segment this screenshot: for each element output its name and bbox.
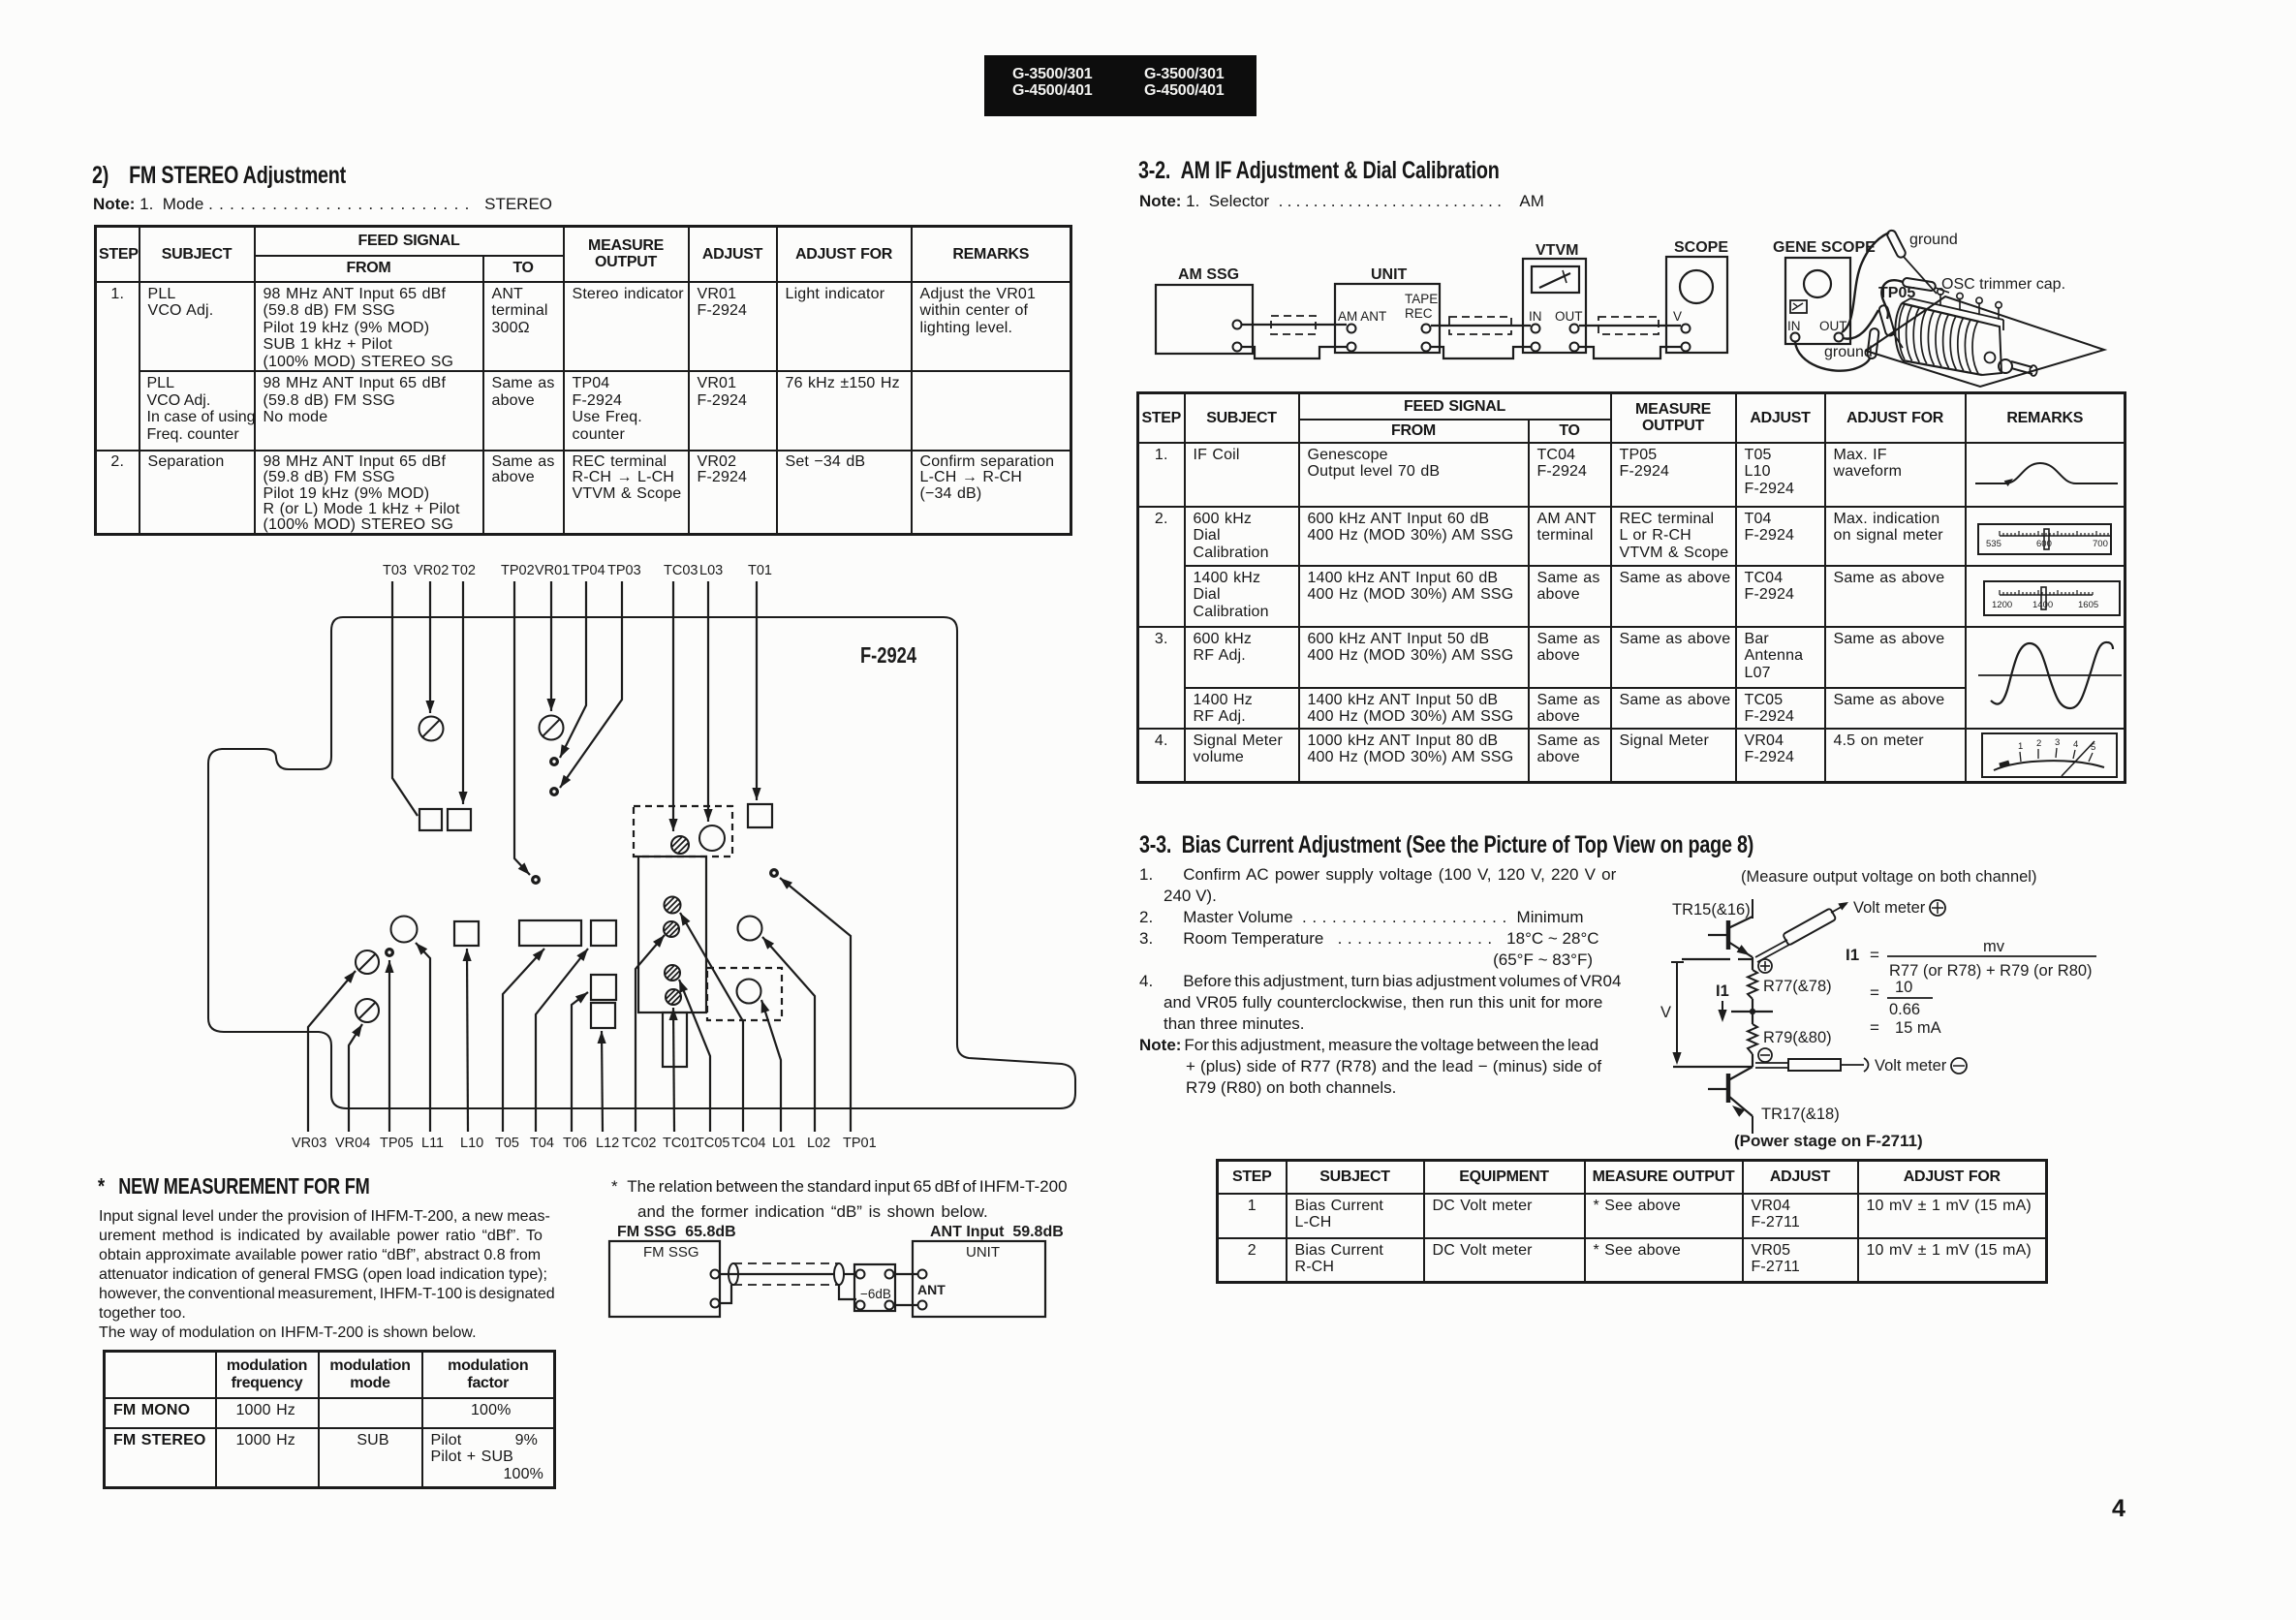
- svg-text:TC01: TC01: [663, 1136, 697, 1151]
- svg-text:UNIT: UNIT: [966, 1244, 1000, 1261]
- wire VTVM to SCOPE (hot): [1579, 325, 1681, 327]
- potentiometer VR01: [540, 716, 564, 740]
- remark dial scale 1400kHz: [1984, 581, 2120, 615]
- svg-text:TP02: TP02: [501, 563, 535, 578]
- label TR17(&18): [1761, 1106, 1840, 1123]
- bottom node line: [1673, 1066, 1753, 1068]
- wire emitter to R77: [1752, 957, 1753, 970]
- svg-text:ANT: ANT: [917, 1282, 946, 1297]
- modulation table: [103, 1350, 556, 1489]
- svg-text:(Power stage on F-2711): (Power stage on F-2711): [1734, 1132, 1923, 1150]
- svg-text:TR17(&18): TR17(&18): [1761, 1106, 1840, 1123]
- tuning gang body: [1895, 303, 1982, 375]
- svg-text:V: V: [1660, 1004, 1671, 1021]
- leader wire L10: [463, 949, 472, 1132]
- svg-text:3: 3: [2055, 737, 2060, 748]
- label T05 (bottom): [495, 1136, 519, 1151]
- svg-text:VTVM: VTVM: [1536, 242, 1578, 259]
- svg-text:=: =: [1870, 983, 1879, 1002]
- trimmer posts on gang: [1938, 289, 2001, 320]
- volt meter plus probe: [1755, 902, 1848, 962]
- svg-text:15 mA: 15 mA: [1895, 1019, 1941, 1037]
- svg-text:REC: REC: [1405, 306, 1433, 321]
- label OSC trimmer cap.: [1941, 276, 2065, 293]
- leader wire TP04: [560, 581, 586, 758]
- svg-text:VR03: VR03: [292, 1136, 326, 1151]
- label T04 (bottom): [530, 1136, 554, 1151]
- UNIT box (fm diagram): [913, 1241, 1045, 1317]
- label ground (bottom): [1824, 344, 1873, 360]
- svg-text:TC02: TC02: [622, 1136, 656, 1151]
- svg-text:10: 10: [1895, 979, 1912, 996]
- leader wire TP01: [780, 878, 851, 1132]
- cable IN to bottom ground probe: [1795, 342, 1870, 371]
- leader wire TP05: [385, 960, 393, 1132]
- label measure output voltage note: [1741, 868, 2036, 886]
- svg-text:L01: L01: [772, 1136, 795, 1151]
- NEW MEASUREMENT section: [98, 1173, 370, 1199]
- label power stage: [1734, 1132, 1923, 1150]
- svg-text:ANT Input 59.8dB: ANT Input 59.8dB: [930, 1224, 1064, 1240]
- svg-text:mv: mv: [1983, 938, 2005, 955]
- shielded cable 1: [1271, 316, 1316, 334]
- wire UNIT to VTVM (hot): [1431, 325, 1531, 327]
- label TP01 (bottom): [843, 1136, 877, 1151]
- formula 15 mA: [1870, 1018, 1941, 1037]
- coil L11: [391, 917, 418, 943]
- svg-text:1605: 1605: [2078, 600, 2098, 610]
- svg-text:T05: T05: [495, 1136, 519, 1151]
- svg-text:T06: T06: [563, 1136, 587, 1151]
- tuning gang top frame: [1902, 298, 2003, 330]
- transformer T01: [748, 804, 772, 827]
- label Volt meter plus: [1853, 899, 1945, 917]
- resistor R79(&80): [1748, 1024, 1757, 1054]
- svg-text:F-2924: F-2924: [860, 642, 916, 668]
- plus junction symbol: [1758, 959, 1772, 973]
- leader wire L01: [761, 1000, 781, 1132]
- svg-text:Volt meter: Volt meter: [1853, 899, 1926, 917]
- label L11 (bottom): [421, 1136, 444, 1151]
- label VR03 (bottom): [292, 1136, 326, 1151]
- svg-text:R79(&80): R79(&80): [1763, 1029, 1832, 1046]
- svg-text:AM SSG: AM SSG: [1178, 266, 1239, 283]
- trimmer capacitor TC05: [665, 965, 680, 981]
- GENE SCOPE crt circle: [1804, 270, 1831, 297]
- leader wire TP03: [560, 581, 622, 788]
- svg-text:Volt meter: Volt meter: [1875, 1057, 1947, 1075]
- leader wire L11: [416, 943, 430, 1132]
- wires -6dB to UNIT: [894, 1274, 917, 1305]
- svg-text:R77 (or R78) + R79 (or R80): R77 (or R78) + R79 (or R80): [1889, 962, 2093, 980]
- node line at TR15 emitter: [1682, 958, 1753, 960]
- probe bottom ground: [1867, 328, 1879, 359]
- svg-text:L12: L12: [596, 1136, 619, 1151]
- wire R79 to bottom node: [1752, 1054, 1753, 1067]
- label TC02 (bottom): [622, 1136, 656, 1151]
- test point TP01: [769, 868, 779, 878]
- label TP03 (top): [607, 563, 641, 578]
- minus junction symbol: [1758, 1048, 1772, 1062]
- trimmer capacitor (upper pair lower): [664, 921, 679, 937]
- GENE SCOPE IN OUT terminals: [1787, 319, 1847, 342]
- leader wire L03: [703, 581, 712, 822]
- label T01 (top): [748, 563, 772, 578]
- leader wire TC02: [636, 935, 665, 1132]
- VTVM box: [1523, 242, 1586, 353]
- SCOPE box: [1666, 239, 1728, 353]
- FM SSG box: [609, 1241, 720, 1317]
- svg-text:TC03: TC03: [664, 563, 698, 578]
- label I1 with arrow: [1716, 982, 1729, 1022]
- label T06 (bottom): [563, 1136, 587, 1151]
- leader wire VR03: [308, 971, 356, 1132]
- leader wire TC01: [669, 1008, 678, 1132]
- label TP04 (top): [572, 563, 605, 578]
- potentiometer VR02: [419, 717, 444, 741]
- leader wire T02: [458, 581, 467, 804]
- left column titles: [92, 162, 346, 190]
- probe to top ground: [1886, 229, 1937, 294]
- svg-text:IN: IN: [1787, 319, 1801, 333]
- minus6dB box: [854, 1264, 895, 1311]
- leader wire T03: [392, 581, 418, 816]
- test point TP04: [549, 757, 559, 766]
- cable OUT to top ground probe: [1842, 233, 1889, 332]
- UNIT AM ANT terminals: [1338, 309, 1386, 352]
- label VR04 (bottom): [335, 1136, 370, 1151]
- SCOPE crt circle: [1680, 270, 1713, 303]
- leader wire TC03: [668, 581, 677, 831]
- dashed module box TC03/L03: [634, 806, 732, 857]
- svg-text:TR15(&16): TR15(&16): [1672, 901, 1751, 919]
- right column titles: [1138, 157, 1500, 185]
- formula 10/0.66: [1870, 979, 1933, 1018]
- label T03 (top): [383, 563, 407, 578]
- label L10 (bottom): [460, 1136, 483, 1151]
- svg-text:VR02: VR02: [414, 563, 449, 578]
- label L02 (bottom): [807, 1136, 830, 1151]
- SCOPE V terminal: [1673, 309, 1691, 352]
- AM IF table: [1136, 391, 2126, 784]
- svg-text:L11: L11: [421, 1136, 444, 1151]
- label TP05 (bottom): [380, 1136, 414, 1151]
- test point TP03: [549, 787, 559, 796]
- label TC01 (bottom): [663, 1136, 697, 1151]
- coil L10: [454, 921, 479, 946]
- label ground (top): [1909, 232, 1958, 248]
- svg-text:TC04: TC04: [731, 1136, 765, 1151]
- label TP05 (gang): [1878, 285, 1915, 301]
- svg-text:TP05: TP05: [380, 1136, 414, 1151]
- label R77(&78): [1763, 978, 1832, 995]
- trimmer capacitor TC02: [665, 897, 681, 914]
- svg-text:−6dB: −6dB: [860, 1287, 891, 1301]
- VTVM meter face: [1532, 266, 1579, 293]
- leader wire T05: [503, 949, 544, 1132]
- label ANT Input 59.8dB: [930, 1224, 1064, 1240]
- wire VTVM to SCOPE (return): [1579, 347, 1681, 358]
- svg-text:(Measure output voltage on bot: (Measure output voltage on both channel): [1741, 868, 2036, 886]
- transistor TR15: [1708, 917, 1753, 957]
- label TC04 (bottom): [731, 1136, 765, 1151]
- shielded cable 3: [1598, 317, 1659, 334]
- svg-text:UNIT: UNIT: [1371, 266, 1408, 283]
- svg-text:VR01: VR01: [535, 563, 570, 578]
- trimmer capacitor TC01: [666, 989, 681, 1005]
- chassis board under tuning gang: [1866, 296, 2104, 387]
- leader wire TP02: [514, 581, 530, 875]
- svg-text:TP01: TP01: [843, 1136, 877, 1151]
- transformer T03: [419, 809, 442, 830]
- dashed box around L01: [707, 968, 782, 1020]
- svg-text:SCOPE: SCOPE: [1674, 239, 1728, 256]
- leader wire T01: [752, 581, 760, 800]
- 3-3 section: [1139, 831, 1753, 859]
- trimmer capacitor TC03: [671, 836, 689, 854]
- cable FM SSG tube: [720, 1263, 844, 1285]
- wire AM SSG to UNIT (hot): [1242, 324, 1347, 326]
- wire UNIT to VTVM (return): [1431, 347, 1531, 358]
- potentiometer VR03: [356, 950, 379, 974]
- resistor R77 zigzag: [1748, 970, 1757, 999]
- svg-text:FM SSG: FM SSG: [643, 1244, 699, 1261]
- transistor TR17: [1708, 1067, 1753, 1117]
- VTVM IN OUT terminals: [1529, 309, 1583, 352]
- leader wire VR01: [546, 581, 555, 711]
- label TC05 (bottom): [696, 1136, 729, 1151]
- svg-text:1: 1: [2018, 741, 2023, 752]
- svg-text:=: =: [1870, 1018, 1879, 1037]
- leader wire TC04: [680, 913, 743, 1132]
- leader wire TC05: [679, 980, 710, 1132]
- leader wire L02: [762, 937, 815, 1132]
- PCB board F-2924 outline: [208, 617, 1075, 1108]
- remark dial scale 600kHz: [1978, 524, 2111, 554]
- label VR02 (top): [414, 563, 449, 578]
- svg-text:TAPE: TAPE: [1405, 292, 1438, 306]
- svg-text:TP03: TP03: [607, 563, 641, 578]
- svg-text:GENE SCOPE: GENE SCOPE: [1773, 239, 1876, 256]
- AM SSG output terminals: [1233, 321, 1242, 352]
- leader wire VR04: [349, 1024, 362, 1132]
- svg-text:ground: ground: [1909, 232, 1958, 248]
- coil L12: [591, 1003, 615, 1028]
- label TP02 (top): [501, 563, 535, 578]
- leader wire L12: [598, 1031, 606, 1132]
- formula I1: [1846, 938, 2096, 980]
- gang right end plate and shaft: [1979, 322, 2037, 376]
- remark signal meter: [1982, 733, 2117, 777]
- remark sine waveform: [1978, 642, 2122, 708]
- IF block module: [638, 857, 706, 1067]
- UNIT TAPE REC terminals: [1405, 292, 1438, 352]
- leader wire T04: [536, 949, 588, 1132]
- wire R77 to junction: [1752, 999, 1753, 1024]
- svg-text:=: =: [1870, 946, 1879, 964]
- label VR01 (top): [535, 563, 570, 578]
- label FM SSG 65.8dB: [617, 1224, 736, 1240]
- transformer T06: [591, 975, 616, 1000]
- svg-text:VR04: VR04: [335, 1136, 370, 1151]
- minus6dB terminals: [856, 1270, 894, 1310]
- svg-text:AM ANT: AM ANT: [1338, 309, 1386, 324]
- transformer T04: [591, 920, 616, 946]
- leader wire VR02: [425, 581, 434, 713]
- svg-text:700: 700: [2093, 539, 2108, 549]
- FM STEREO table: [94, 225, 1072, 536]
- svg-text:T01: T01: [748, 563, 772, 578]
- junction tick: [1731, 1009, 1773, 1014]
- svg-text:T03: T03: [383, 563, 407, 578]
- GENE SCOPE sweep icon: [1790, 300, 1807, 313]
- svg-text:FM SSG 65.8dB: FM SSG 65.8dB: [617, 1224, 736, 1240]
- svg-text:L03: L03: [699, 563, 723, 578]
- label T02 (top): [451, 563, 476, 578]
- transformer T05: [519, 920, 581, 946]
- volt meter minus probe: [1755, 1058, 1869, 1072]
- svg-text:T02: T02: [451, 563, 476, 578]
- label F-2924: [860, 642, 916, 668]
- svg-text:1200: 1200: [1992, 600, 2012, 610]
- relation note: [611, 1174, 1068, 1225]
- probe OSC trimmer: [1902, 277, 1949, 293]
- svg-text:OSC trimmer cap.: OSC trimmer cap.: [1941, 276, 2065, 293]
- label L01 (bottom): [772, 1136, 795, 1151]
- TR17 emitter stub: [1752, 1116, 1753, 1134]
- AM SSG instrument box: [1156, 266, 1253, 354]
- wire FM SSG lower to -6dB: [720, 1285, 856, 1303]
- UNIT box: [1335, 266, 1440, 353]
- GENE SCOPE box: [1773, 239, 1876, 344]
- svg-text:IN: IN: [1529, 309, 1542, 324]
- potentiometer VR04: [356, 999, 379, 1022]
- svg-text:0.66: 0.66: [1889, 1001, 1920, 1018]
- test point TP02: [531, 875, 541, 885]
- svg-text:L10: L10: [460, 1136, 483, 1151]
- svg-text:2: 2: [2036, 738, 2041, 749]
- svg-text:TC05: TC05: [696, 1136, 729, 1151]
- wire AM SSG to UNIT (return): [1242, 347, 1347, 358]
- svg-text:ground: ground: [1824, 344, 1873, 360]
- svg-text:OUT: OUT: [1555, 309, 1583, 324]
- transformer T02: [448, 809, 471, 830]
- svg-text:TP04: TP04: [572, 563, 605, 578]
- model number header box: [984, 55, 1257, 116]
- svg-text:I1: I1: [1846, 946, 1859, 964]
- label R79(&80): [1763, 1029, 1832, 1046]
- label L12 (bottom): [596, 1136, 619, 1151]
- test point TP05: [385, 948, 394, 957]
- svg-text:T04: T04: [530, 1136, 554, 1151]
- svg-text:V: V: [1673, 309, 1682, 324]
- svg-text:TP05: TP05: [1878, 285, 1915, 301]
- cable OUT to TP05 probe: [1843, 310, 1878, 339]
- leader wire T06: [572, 992, 588, 1132]
- bias table: [1216, 1159, 2048, 1284]
- label L03 (top): [699, 563, 723, 578]
- label TC03 (top): [664, 563, 698, 578]
- label TR15(&16): [1672, 899, 1753, 919]
- probe TP05: [1878, 304, 1903, 348]
- remark IF waveform bell curve: [1975, 463, 2118, 486]
- svg-text:4: 4: [2073, 739, 2078, 750]
- cable to OSC trimmer probe: [1881, 280, 1903, 319]
- svg-text:I1: I1: [1716, 982, 1729, 1000]
- page number: [2112, 1495, 2125, 1523]
- coil L01: [737, 980, 761, 1004]
- svg-text:L02: L02: [807, 1136, 830, 1151]
- coil L03: [699, 826, 725, 851]
- wire cable to -6dB top: [844, 1273, 856, 1275]
- svg-text:535: 535: [1986, 539, 2001, 549]
- FM SSG terminals: [711, 1270, 720, 1308]
- UNIT ANT terminals: [917, 1270, 946, 1310]
- svg-text:R77(&78): R77(&78): [1763, 978, 1832, 995]
- shielded cable 2: [1449, 317, 1511, 334]
- coil L02: [738, 917, 762, 941]
- label Volt meter minus: [1875, 1057, 1967, 1075]
- V dimension bracket: [1660, 962, 1684, 1065]
